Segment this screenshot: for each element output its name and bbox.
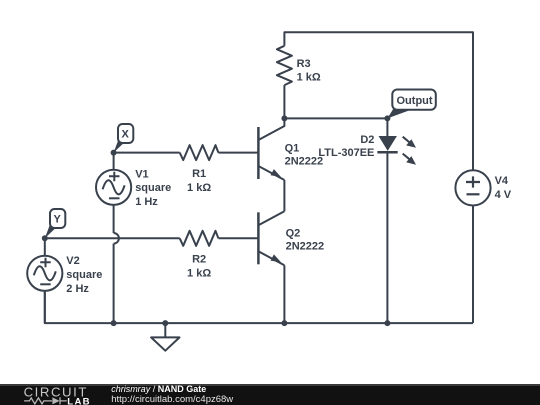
svg-text:chrismray / NAND Gate: chrismray / NAND Gate — [111, 384, 206, 394]
svg-text:V2: V2 — [66, 255, 79, 267]
svg-text:square: square — [66, 269, 102, 281]
svg-text:V4: V4 — [495, 175, 509, 187]
svg-text:Y: Y — [54, 214, 62, 226]
svg-text:D2: D2 — [360, 134, 374, 146]
svg-text:1 kΩ: 1 kΩ — [187, 267, 211, 279]
svg-text:4 V: 4 V — [495, 189, 512, 201]
svg-text:LAB: LAB — [67, 396, 91, 405]
svg-text:1 kΩ: 1 kΩ — [297, 72, 321, 84]
svg-text:LTL-307EE: LTL-307EE — [318, 147, 374, 159]
svg-text:Q1: Q1 — [285, 142, 300, 154]
svg-text:1 Hz: 1 Hz — [135, 196, 158, 208]
svg-text:square: square — [135, 182, 171, 194]
svg-text:2N2222: 2N2222 — [286, 241, 325, 253]
svg-text:http://circuitlab.com/c4pz68w: http://circuitlab.com/c4pz68w — [111, 394, 233, 405]
svg-text:2 Hz: 2 Hz — [66, 283, 89, 295]
svg-text:R1: R1 — [192, 168, 206, 180]
svg-text:Output: Output — [397, 95, 433, 107]
svg-text:2N2222: 2N2222 — [285, 155, 324, 167]
svg-text:Q2: Q2 — [286, 228, 301, 240]
svg-text:X: X — [122, 129, 130, 141]
svg-text:V1: V1 — [135, 168, 148, 180]
svg-text:1 kΩ: 1 kΩ — [187, 182, 211, 194]
svg-text:R3: R3 — [297, 58, 311, 70]
svg-text:R2: R2 — [192, 253, 206, 265]
